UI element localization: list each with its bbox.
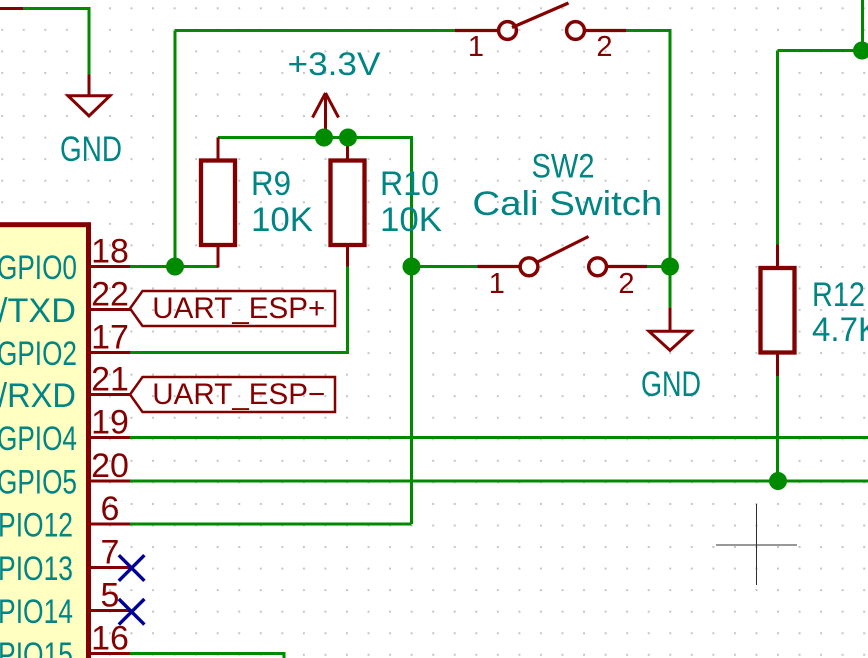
svg-text:GPIO0: GPIO0 [0, 249, 77, 287]
svg-text:GPIO13: GPIO13 [0, 550, 73, 588]
svg-text:GPIO12: GPIO12 [0, 507, 73, 545]
svg-text:10K: 10K [251, 201, 313, 239]
svg-text:GPIO14: GPIO14 [0, 593, 73, 631]
svg-text:21: 21 [91, 361, 129, 399]
svg-text:UART_ESP−: UART_ESP− [152, 378, 325, 411]
svg-text:GPIO5: GPIO5 [0, 464, 77, 502]
svg-text:1: 1 [468, 31, 484, 63]
svg-text:SW2: SW2 [532, 148, 595, 186]
svg-text:/TXD: /TXD [0, 292, 76, 330]
svg-text:16: 16 [91, 620, 129, 658]
svg-text:+3.3V: +3.3V [288, 46, 382, 82]
svg-text:2: 2 [596, 31, 612, 63]
svg-text:1: 1 [489, 268, 505, 300]
svg-text:20: 20 [91, 447, 129, 485]
svg-text:10K: 10K [380, 201, 442, 239]
svg-text:GPIO15: GPIO15 [0, 636, 73, 658]
svg-text:R9: R9 [251, 165, 291, 203]
svg-text:GND: GND [641, 365, 701, 404]
svg-text:19: 19 [91, 404, 129, 442]
svg-text:7: 7 [101, 534, 120, 572]
svg-text:R12: R12 [812, 276, 865, 314]
svg-text:UART_ESP+: UART_ESP+ [152, 292, 325, 325]
svg-text:GPIO2: GPIO2 [0, 335, 77, 373]
svg-text:2: 2 [618, 268, 634, 300]
svg-text:18: 18 [91, 233, 129, 271]
svg-text:4.7K: 4.7K [812, 311, 868, 349]
svg-text:Cali Switch: Cali Switch [472, 185, 662, 223]
svg-text:22: 22 [91, 276, 129, 314]
svg-text:5: 5 [101, 577, 120, 615]
svg-text:GPIO4: GPIO4 [0, 420, 77, 458]
svg-text:17: 17 [91, 319, 129, 357]
svg-text:/RXD: /RXD [0, 377, 76, 415]
svg-text:6: 6 [101, 490, 120, 528]
svg-text:GND: GND [60, 130, 122, 169]
svg-text:R10: R10 [380, 165, 439, 203]
